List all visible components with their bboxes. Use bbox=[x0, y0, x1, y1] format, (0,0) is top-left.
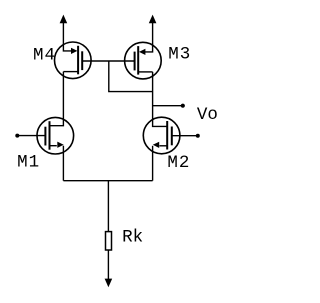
transistor M3 bbox=[125, 42, 162, 79]
VSS arrow bbox=[105, 279, 113, 288]
node Vo terminal bbox=[181, 104, 185, 108]
wire M4 source to M1 drain bbox=[50, 72, 64, 126]
VDD arrow right bbox=[149, 15, 157, 44]
svg-text:M1: M1 bbox=[17, 152, 40, 172]
wire tail rail bbox=[63, 180, 152, 182]
svg-text:Rk: Rk bbox=[122, 227, 143, 247]
node input left bbox=[15, 134, 19, 138]
wire gate to drain of M3 bbox=[109, 61, 153, 92]
resistor Rk bbox=[106, 232, 112, 250]
svg-text:M4: M4 bbox=[33, 46, 56, 66]
wire rail to resistor bbox=[107, 181, 109, 232]
wire Vo tap bbox=[153, 105, 181, 107]
transistor M1 bbox=[37, 117, 74, 180]
wire gates M4-M3 bbox=[82, 60, 134, 62]
svg-text:Vo: Vo bbox=[197, 105, 218, 125]
node input right bbox=[196, 134, 200, 138]
transistor M4 bbox=[55, 42, 92, 79]
wire M1 gate lead bbox=[19, 135, 45, 137]
wire M3 drain to M2 drain bbox=[153, 72, 168, 127]
svg-text:M2: M2 bbox=[167, 153, 190, 173]
transistor M2 bbox=[143, 117, 180, 181]
svg-text:M3: M3 bbox=[168, 45, 191, 65]
VDD arrow left bbox=[60, 15, 68, 44]
wire resistor to VSS bbox=[107, 250, 109, 281]
wire M2 gate lead bbox=[172, 135, 196, 137]
